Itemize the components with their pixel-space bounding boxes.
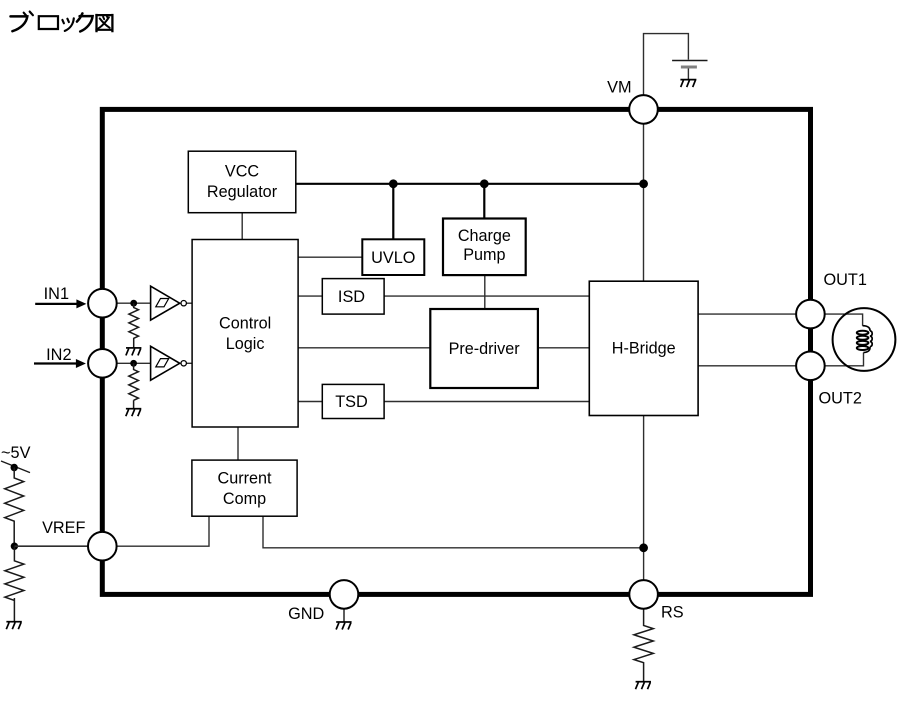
wire VCC rail [296, 183, 644, 185]
supply tap diagonal [1, 461, 30, 473]
svg-text:RS: RS [661, 604, 684, 622]
block TSD [322, 384, 384, 418]
wire Current Comp to RS node [263, 516, 644, 548]
pin RS [629, 580, 658, 609]
wire H-Bridge to OUT1 [698, 313, 796, 315]
wire buffer1 to Control Logic [186, 302, 192, 304]
resistor R2 (IN2 pulldown) [129, 363, 139, 408]
wire IN2 to buffer [117, 362, 151, 364]
ground (GND pin) [336, 622, 352, 630]
wire ISD to H-Bridge [384, 295, 589, 297]
svg-text:Control: Control [219, 315, 271, 333]
wire Charge Pump to Pre-driver [484, 275, 486, 309]
wire Control Logic to Current Comp [237, 427, 239, 460]
battery B1 long plate [672, 60, 707, 62]
svg-text:~5V: ~5V [1, 444, 31, 462]
wire IN1 to buffer [117, 302, 151, 304]
wire TSD to H-Bridge [384, 401, 589, 403]
wire VM down to H-Bridge [643, 124, 645, 282]
node rail-VM [639, 179, 648, 188]
ground (divider) [6, 622, 21, 630]
IC outer boundary [102, 109, 810, 594]
input arrow IN2 [34, 359, 86, 368]
schmitt buffer U1 [151, 286, 187, 320]
block Current Comp [192, 460, 297, 516]
pin OUT1 [796, 300, 825, 329]
block ISD [322, 279, 384, 315]
svg-text:OUT1: OUT1 [824, 271, 867, 289]
svg-text:Charge: Charge [458, 227, 511, 245]
block Control Logic [192, 240, 298, 428]
svg-text:TSD: TSD [335, 393, 368, 411]
node rail-CP [480, 179, 489, 188]
svg-text:Regulator: Regulator [207, 183, 278, 201]
ground (R1) [126, 348, 141, 356]
wire H-Bridge to OUT2 [698, 365, 796, 367]
wire VREF to Current Comp [117, 516, 209, 546]
svg-text:Pre-driver: Pre-driver [449, 340, 521, 358]
ground (supply) [680, 80, 696, 88]
wire Pre-driver to H-Bridge [538, 347, 589, 349]
node sense-RS [639, 543, 648, 552]
svg-text:VM: VM [607, 79, 631, 97]
svg-text:Current: Current [218, 470, 272, 488]
wire buffer2 to Control Logic [186, 362, 192, 364]
wire battery to ground [687, 69, 689, 80]
pin IN2 [88, 349, 117, 378]
wire VCC Regulator to Control Logic [241, 213, 243, 240]
ground (R2) [126, 409, 142, 417]
input arrow IN1 [35, 299, 86, 308]
resistor R1 (IN1 pulldown) [129, 303, 139, 348]
wire Control Logic to Pre-driver [298, 347, 430, 349]
wire Control Logic to TSD [298, 401, 322, 403]
block H-Bridge [589, 281, 698, 415]
title ブロック図 [11, 12, 114, 33]
wire Charge Pump drop [483, 184, 485, 219]
pin GND [330, 580, 359, 609]
svg-text:VREF: VREF [42, 519, 85, 537]
pin OUT2 [796, 352, 825, 381]
svg-text:H-Bridge: H-Bridge [612, 340, 676, 358]
svg-text:VCC: VCC [225, 163, 259, 181]
wire VM to supply rail [644, 34, 689, 95]
node IN2 pulldown [130, 360, 137, 367]
block Charge Pump [443, 219, 526, 276]
node IN1 pulldown [130, 300, 137, 307]
node divider mid [11, 543, 18, 550]
wire GND pin to ground [343, 609, 345, 622]
block UVLO [362, 239, 424, 275]
pin VREF [88, 532, 117, 561]
ground (RS) [636, 682, 652, 690]
svg-text:ISD: ISD [338, 288, 365, 306]
wire divider to VREF [14, 545, 88, 547]
node supply tap [11, 464, 18, 471]
block Pre-driver [430, 309, 538, 388]
block VCC Regulator [188, 151, 295, 213]
svg-text:Pump: Pump [463, 246, 505, 264]
wire H-Bridge to RS [643, 416, 645, 581]
battery B1 short plate [681, 66, 697, 69]
svg-text:Comp: Comp [223, 490, 266, 508]
schmitt buffer U2 [151, 346, 187, 380]
pin VM [629, 95, 658, 124]
motor M1 [825, 308, 896, 371]
node rail-UVLO [389, 179, 398, 188]
svg-text:GND: GND [288, 605, 324, 623]
resistor R5 (RS sense) [634, 609, 653, 682]
svg-text:IN2: IN2 [46, 346, 71, 364]
pin IN1 [88, 289, 117, 318]
svg-text:IN1: IN1 [44, 285, 69, 303]
svg-text:UVLO: UVLO [371, 249, 415, 267]
wire Control Logic to UVLO [298, 256, 362, 258]
svg-text:OUT2: OUT2 [819, 390, 862, 408]
svg-text:Logic: Logic [226, 335, 265, 353]
resistor R4 (divider bottom) [5, 546, 24, 622]
resistor R3 (divider top) [5, 468, 24, 547]
wire Control Logic to ISD [298, 295, 322, 297]
wire UVLO drop [392, 184, 394, 240]
